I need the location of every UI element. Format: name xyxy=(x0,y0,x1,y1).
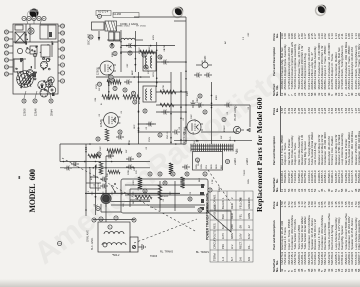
svg-text:48: 48 xyxy=(189,197,192,200)
svg-text:12: 12 xyxy=(62,31,65,34)
scan mark right edge xyxy=(30,10,38,13)
svg-text:OSC.-600: OSC.-600 xyxy=(88,33,91,45)
speaker hatch extra xyxy=(19,72,34,87)
svg-text:23: 23 xyxy=(110,75,113,78)
component value labels 2 xyxy=(88,47,250,207)
volume control (dark knob) xyxy=(96,190,112,209)
resistor R15 xyxy=(105,129,109,141)
svg-text:15: 15 xyxy=(34,99,37,102)
svg-text:+MAX: +MAX xyxy=(246,158,249,165)
svg-text:41: 41 xyxy=(227,160,230,163)
svg-text:OHM: OHM xyxy=(198,161,200,166)
power transformer data table xyxy=(210,191,253,262)
svg-text:AMP: AMP xyxy=(131,70,134,75)
svg-text:115V: 115V xyxy=(153,72,155,77)
chassis dark smudge xyxy=(20,32,52,77)
svg-text:T0003: T0003 xyxy=(150,255,158,258)
capacitor C1 xyxy=(191,100,196,108)
IF coil 2b xyxy=(151,89,152,100)
svg-text:150V: 150V xyxy=(96,83,98,89)
wire col 146 xyxy=(174,140,252,142)
ant box inner circle xyxy=(103,243,107,247)
svg-text:5-6: 5-6 xyxy=(239,257,243,261)
resistor R10 xyxy=(160,90,176,94)
svg-text:BLK: BLK xyxy=(199,177,201,182)
svg-text:18: 18 xyxy=(114,52,117,55)
svg-text:TONE: TONE xyxy=(96,163,98,170)
svg-text:8.2: 8.2 xyxy=(221,225,225,229)
capacitor C13 xyxy=(161,60,169,65)
svg-text:21: 21 xyxy=(114,86,117,89)
control box dark strip xyxy=(200,184,204,210)
electrolytic can (chassis) xyxy=(28,28,34,34)
power transformer lead box xyxy=(193,152,223,171)
cap pair left xyxy=(126,157,134,170)
wire from label box xyxy=(134,16,186,18)
svg-text:480V: 480V xyxy=(230,233,234,239)
arrow pilot xyxy=(247,129,250,132)
svg-text:5.0V: 5.0V xyxy=(239,233,243,239)
svg-text:1: 1 xyxy=(221,197,225,199)
control section box xyxy=(121,179,208,213)
svg-text:6: 6 xyxy=(62,80,65,82)
IF can 2 (chassis) xyxy=(41,45,50,57)
svg-text:30: 30 xyxy=(199,94,202,97)
svg-text:6-7: 6-7 xyxy=(230,257,234,261)
svg-text:35W4: 35W4 xyxy=(51,109,54,116)
svg-text:32: 32 xyxy=(119,130,122,133)
IF transformer box 2 xyxy=(143,86,156,102)
svg-text:GRN: GRN xyxy=(248,179,250,184)
chassis callouts top xyxy=(4,30,13,76)
callout extra b xyxy=(198,208,202,212)
wire plate lead V1 xyxy=(108,74,110,100)
transformer lead labels xyxy=(196,164,223,169)
resistor R11 xyxy=(140,50,154,54)
wire AVC bus xyxy=(95,165,97,215)
callout extra d xyxy=(203,110,207,114)
svg-text:T0003: T0003 xyxy=(244,169,246,176)
svg-text:RED: RED xyxy=(211,164,213,169)
IF can (chassis) xyxy=(15,32,25,43)
svg-text:4: 4 xyxy=(247,197,251,199)
tube socket V6 (chassis) xyxy=(40,89,48,97)
capacitor C17 xyxy=(224,103,232,108)
svg-text:34: 34 xyxy=(144,109,147,112)
svg-text:A1-266: A1-266 xyxy=(113,13,122,16)
wire row 211 xyxy=(211,82,213,144)
svg-text:47K: 47K xyxy=(91,176,93,180)
pilot lamp xyxy=(233,126,244,133)
svg-text:*500-2: *500-2 xyxy=(112,254,120,257)
IF coil secondary xyxy=(151,56,153,68)
svg-text:RL. TRANS: RL. TRANS xyxy=(160,251,173,254)
svg-text:2: 2 xyxy=(230,197,234,199)
svg-text:.25: .25 xyxy=(190,191,192,195)
wire vol area xyxy=(105,156,107,193)
svg-text:.09: .09 xyxy=(239,225,243,229)
capacitor C14 xyxy=(124,80,132,85)
svg-text:50: 50 xyxy=(209,188,212,191)
svg-text:3: 3 xyxy=(239,197,243,199)
tuning gang symbol xyxy=(207,211,231,232)
resistor R6 xyxy=(180,177,184,188)
svg-text:NO.: NO. xyxy=(213,194,217,199)
trimmer knob xyxy=(132,245,135,248)
wire col 82 xyxy=(111,204,150,206)
svg-text:11: 11 xyxy=(62,39,65,42)
resistor R14 xyxy=(158,185,162,200)
dial cord dashed 2 xyxy=(134,219,197,243)
svg-text:H.V.: H.V. xyxy=(230,244,234,249)
svg-text:3: 3 xyxy=(33,17,36,19)
svg-text:1ST I.F.: 1ST I.F. xyxy=(148,66,150,74)
resistor R13 xyxy=(88,154,100,158)
tuning gang (chassis) xyxy=(40,25,56,39)
wire col 125 xyxy=(60,161,150,163)
tube V1 12BE6 converter xyxy=(97,61,117,75)
resistor R1 xyxy=(102,95,119,99)
tone switch lines xyxy=(86,169,121,212)
svg-text:RED: RED xyxy=(230,203,234,209)
svg-text:RED: RED xyxy=(230,213,234,219)
svg-text:9: 9 xyxy=(99,15,102,17)
svg-text:25: 25 xyxy=(6,37,9,40)
svg-text:10: 10 xyxy=(62,47,65,50)
svg-text:26: 26 xyxy=(129,51,132,54)
svg-text:TERM: TERM xyxy=(213,253,217,261)
svg-text:8: 8 xyxy=(62,64,65,66)
svg-text:26: 26 xyxy=(6,30,9,33)
tiny mark left margin xyxy=(19,176,21,179)
chassis leader lines xyxy=(24,19,51,99)
svg-text:6.3V: 6.3V xyxy=(236,149,238,154)
capacitor C9 xyxy=(100,177,108,182)
capacitor C8 xyxy=(100,184,108,189)
svg-text:29: 29 xyxy=(138,153,141,156)
chassis tube labels xyxy=(24,108,54,116)
svg-text:47: 47 xyxy=(204,172,207,175)
resistor R9 xyxy=(108,170,120,174)
speaker (chassis view) xyxy=(17,71,34,88)
svg-text:6.3V: 6.3V xyxy=(247,233,251,239)
svg-text:GREEN: GREEN xyxy=(247,199,251,209)
svg-text:22: 22 xyxy=(124,88,127,91)
svg-text:A.C.: A.C. xyxy=(138,99,141,104)
svg-text:.12: .12 xyxy=(247,225,251,229)
loop antenna coil xyxy=(102,243,126,245)
capacitor C12 xyxy=(161,110,169,115)
svg-text:T0003: T0003 xyxy=(162,196,169,198)
svg-text:+MAX: +MAX xyxy=(234,158,237,165)
IF transformer box xyxy=(143,53,156,71)
chassis detail marks xyxy=(16,43,50,91)
tube socket V4 (chassis) xyxy=(27,70,34,77)
chassis callout row below xyxy=(58,24,65,83)
capacitor C10 xyxy=(106,154,114,159)
svg-text:8-9: 8-9 xyxy=(247,257,251,261)
loop antenna box xyxy=(98,222,130,252)
svg-text:OSC: OSC xyxy=(149,46,151,51)
antenna coil secondary xyxy=(104,232,124,235)
chassis corner rect xyxy=(15,25,23,30)
svg-text:240: 240 xyxy=(230,224,234,229)
wire drops mid xyxy=(121,52,250,132)
svg-text:.05: .05 xyxy=(146,146,148,150)
capacitor C3 xyxy=(204,73,212,78)
svg-text:20: 20 xyxy=(6,72,9,75)
ant trimmer box hatched xyxy=(105,21,117,31)
ground symbol ant xyxy=(138,244,145,250)
dots pass3 xyxy=(95,61,187,168)
resistor R7 xyxy=(169,163,173,175)
svg-text:GRN: GRN xyxy=(247,213,251,219)
svg-text:TRIM. 17010: TRIM. 17010 xyxy=(117,26,130,28)
svg-text:.004: .004 xyxy=(95,97,97,102)
tube socket V2 (chassis) xyxy=(48,86,56,94)
svg-text:4: 4 xyxy=(38,17,41,19)
svg-text:.01: .01 xyxy=(121,110,123,114)
svg-text:2: 2 xyxy=(28,17,31,19)
punch hole 1 xyxy=(175,7,183,15)
winding taps up xyxy=(0,286,1,287)
dial cord dashed 3 xyxy=(208,170,231,203)
capacitor C18 xyxy=(71,162,79,167)
svg-text:PRI.: PRI. xyxy=(221,244,225,249)
tube V2 12BA6 IF xyxy=(100,113,120,128)
switch detail xyxy=(130,189,195,207)
wire heater row 3 xyxy=(156,42,158,87)
svg-text:33: 33 xyxy=(97,137,100,140)
svg-text:.002: .002 xyxy=(127,63,129,68)
svg-text:.05: .05 xyxy=(99,113,101,117)
svg-text:12BE6: 12BE6 xyxy=(24,108,27,116)
svg-text:250V: 250V xyxy=(149,136,151,142)
chassis bottom marks xyxy=(41,85,55,96)
svg-text:35-5: 35-5 xyxy=(230,136,232,141)
svg-text:YEL: YEL xyxy=(206,164,208,169)
capacitor C2 xyxy=(194,73,202,78)
svg-text:100: 100 xyxy=(202,60,204,64)
schematic callout circles xyxy=(58,35,230,246)
svg-text:.01: .01 xyxy=(161,56,163,60)
tube socket V1 (chassis) xyxy=(38,81,46,89)
svg-text:56K: 56K xyxy=(107,173,109,177)
svg-text:FIL.: FIL. xyxy=(247,244,251,249)
wire pilot feed xyxy=(201,131,237,133)
svg-text:SEC: SEC xyxy=(134,124,136,129)
svg-text:B+: B+ xyxy=(100,155,102,158)
antenna trimmer box xyxy=(130,237,138,252)
wire col 87 xyxy=(130,199,150,201)
chassis mid circle a xyxy=(33,53,37,57)
svg-text:POWER TRANSFORMER DATA: POWER TRANSFORMER DATA xyxy=(206,192,210,240)
IF coil 2a xyxy=(146,89,147,100)
parts list title xyxy=(255,97,264,212)
svg-text:.02: .02 xyxy=(183,117,185,121)
svg-text:1W: 1W xyxy=(126,149,128,153)
resistor R4 xyxy=(107,80,121,84)
svg-text:.05: .05 xyxy=(146,126,148,130)
control box interior xyxy=(125,181,205,211)
svg-text:B-: B- xyxy=(101,103,103,105)
capacitor C4 xyxy=(92,154,100,159)
svg-text:BLACK: BLACK xyxy=(221,200,225,209)
padder boxes xyxy=(109,32,120,41)
speaker cone shading xyxy=(20,74,32,86)
wire IF row xyxy=(138,72,140,144)
svg-text:24: 24 xyxy=(6,44,9,47)
svg-text:CIRCUIT: CIRCUIT xyxy=(213,238,217,249)
svg-text:25: 25 xyxy=(134,100,137,103)
wire heater row 2 xyxy=(134,31,136,72)
svg-text:20MF: 20MF xyxy=(115,116,117,122)
svg-text:5: 5 xyxy=(43,17,46,19)
capacitor C5 xyxy=(182,165,190,170)
svg-text:LEAD: LEAD xyxy=(213,212,217,219)
capacitor C11 xyxy=(146,122,154,127)
wire col 210 xyxy=(96,76,150,78)
svg-text:46: 46 xyxy=(186,172,189,175)
svg-text:OSC: OSC xyxy=(100,146,102,151)
chassis partition 2 xyxy=(29,24,31,42)
svg-text:7: 7 xyxy=(62,72,65,74)
svg-text:470K: 470K xyxy=(163,84,165,90)
chassis partition 1 xyxy=(13,41,58,43)
svg-text:2.2K: 2.2K xyxy=(212,179,214,184)
svg-text:16: 16 xyxy=(50,99,53,102)
svg-text:470K: 470K xyxy=(129,139,131,145)
svg-text:.002: .002 xyxy=(248,32,250,37)
callout extra c xyxy=(208,188,212,192)
capacitor C19 xyxy=(64,166,72,171)
svg-text:49: 49 xyxy=(199,208,202,211)
chassis callouts left xyxy=(22,99,53,103)
svg-text:RED: RED xyxy=(216,164,218,169)
callout top a xyxy=(97,14,101,18)
svg-text:21: 21 xyxy=(6,65,9,68)
MODEL 600 page label xyxy=(28,169,37,212)
wire ant top edge xyxy=(93,219,135,221)
svg-text:1-4: 1-4 xyxy=(221,257,225,261)
svg-text:20MF: 20MF xyxy=(197,97,199,103)
svg-text:YELLOW: YELLOW xyxy=(239,197,243,209)
osc coil xyxy=(121,38,135,40)
chassis extra marks xyxy=(15,34,53,88)
label boxes top right xyxy=(96,11,139,18)
svg-text:30MF: 30MF xyxy=(204,55,207,62)
tube socket V7 (chassis) xyxy=(46,81,53,88)
svg-text:20: 20 xyxy=(99,82,102,85)
wire row 181 xyxy=(180,72,182,144)
svg-text:3.3: 3.3 xyxy=(243,36,245,40)
svg-text:22: 22 xyxy=(6,58,9,61)
svg-text:.05: .05 xyxy=(164,48,166,52)
dial cord dashed 1 xyxy=(62,158,197,232)
svg-text:13: 13 xyxy=(62,24,65,27)
resistor R8 xyxy=(99,162,103,174)
resistor R5 xyxy=(138,177,142,189)
svg-text:37: 37 xyxy=(159,133,162,136)
capacitor C6 xyxy=(126,43,134,48)
svg-text:RES.: RES. xyxy=(213,222,217,229)
wire col 119 xyxy=(60,167,150,169)
arrow left 2 xyxy=(111,43,113,47)
wire ant to pot xyxy=(105,204,107,222)
svg-text:BLK: BLK xyxy=(221,164,223,169)
wire osc drop xyxy=(107,39,121,41)
power trans (chassis) xyxy=(14,59,23,72)
svg-text:23: 23 xyxy=(6,51,9,54)
svg-text:24: 24 xyxy=(133,91,136,94)
wire B+ rail xyxy=(185,21,187,144)
resistor R2 xyxy=(123,95,140,99)
wire B+ bus xyxy=(85,144,87,216)
svg-text:VOLTS: VOLTS xyxy=(213,230,217,239)
component value labels xyxy=(91,32,250,207)
tube socket V3 (chassis) xyxy=(48,77,54,83)
wire rail drop xyxy=(174,20,186,22)
chassis mid circle b xyxy=(46,58,49,61)
svg-text:BL. TRANS: BL. TRANS xyxy=(196,251,209,254)
callout extra a xyxy=(188,197,192,201)
wire top link xyxy=(59,144,61,162)
svg-text:TP. 17010: TP. 17010 xyxy=(136,26,147,28)
electrolytic C7 xyxy=(196,55,212,68)
svg-text:117V: 117V xyxy=(221,233,225,239)
svg-text:AC: AC xyxy=(224,41,227,44)
svg-text:1: 1 xyxy=(23,17,26,19)
svg-text:12BE6: 12BE6 xyxy=(97,67,100,75)
tube V4 35W4 rectifier xyxy=(184,120,204,134)
svg-text:.02: .02 xyxy=(94,183,96,187)
punch hole 2 xyxy=(318,5,326,13)
chassis callouts right col xyxy=(22,16,46,20)
chassis inner lines xyxy=(13,24,52,69)
arrow left 1 xyxy=(98,37,100,41)
svg-text:2W: 2W xyxy=(99,87,101,91)
svg-text:MEG: MEG xyxy=(112,52,114,57)
shielded cable run xyxy=(85,192,180,194)
resistor R12 xyxy=(160,103,174,107)
svg-text:A1-271-4: A1-271-4 xyxy=(98,11,109,14)
capacitor C15 xyxy=(172,130,180,135)
svg-text:14: 14 xyxy=(23,99,26,102)
svg-text:YEL: YEL xyxy=(239,213,243,219)
capacitor C16 xyxy=(196,103,204,108)
svg-text:10MF: 10MF xyxy=(219,186,221,192)
callout col 113 xyxy=(148,172,207,176)
wire heater row 1 xyxy=(120,30,122,72)
svg-text:9: 9 xyxy=(62,56,65,58)
svg-text:SW: SW xyxy=(112,151,114,155)
svg-text:GRN: GRN xyxy=(201,164,203,169)
switch SW1 xyxy=(111,183,116,193)
wire col 241 xyxy=(121,45,175,47)
tuning capacitor drive (dark) xyxy=(30,9,39,18)
tube socket V5 (chassis) xyxy=(40,61,47,68)
svg-text:COLOR: COLOR xyxy=(213,199,217,209)
svg-text:.01: .01 xyxy=(163,198,165,202)
chassis layout outline xyxy=(13,24,58,94)
wire row 171 xyxy=(170,72,172,144)
svg-text:MEG: MEG xyxy=(187,91,189,96)
svg-text:12BA6: 12BA6 xyxy=(100,119,103,127)
power transformer winding xyxy=(191,144,233,152)
svg-text:BLK: BLK xyxy=(221,214,225,219)
osc coil (chassis) xyxy=(17,48,30,53)
capacitor C20 xyxy=(116,135,124,140)
